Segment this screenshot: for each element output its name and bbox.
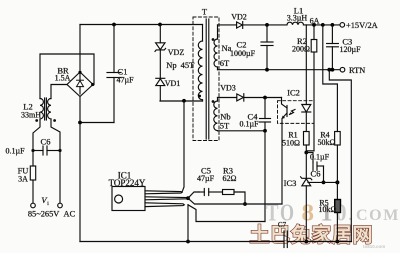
- winding Np primary: [198, 25, 202, 102]
- wire bridge bottom vertical to bottom rail: [79, 97, 81, 242]
- node drain junction: [182, 99, 186, 103]
- wire L2 left down jog to x33: [33, 119, 40, 151]
- svg-text:0.1µF: 0.1µF: [239, 120, 259, 129]
- node C6 ref: [322, 181, 326, 185]
- terminal +15V: [340, 23, 345, 28]
- svg-text:RTN: RTN: [349, 66, 365, 75]
- wire L2 left winding over bridge to right vertex: [40, 54, 94, 99]
- node R4 R5 junction: [335, 180, 339, 184]
- svg-text:8: 8: [302, 201, 315, 227]
- svg-text:1.5A: 1.5A: [55, 74, 71, 83]
- wire RTN rail: [218, 69, 341, 71]
- wire jog RTN to bottom net: [329, 70, 351, 242]
- svg-text:Np: Np: [166, 60, 176, 70]
- wire R4 feed from +15V: [323, 25, 338, 132]
- wire bridge left vertex to L2 right winding: [51, 85, 67, 99]
- capacitor C7 Y-cap: [284, 231, 287, 248]
- diode IC3 TL431: [301, 153, 312, 242]
- svg-text:IC3: IC3: [284, 178, 297, 188]
- wire R1 bottom to C6: [306, 153, 313, 163]
- wire bridge top to rail: [79, 25, 81, 73]
- pin control: [145, 197, 188, 200]
- watermark TO810.COM: [266, 201, 400, 227]
- svg-text:C2: C2: [237, 40, 247, 50]
- inductor L1: [287, 22, 304, 25]
- svg-text:50kΩ: 50kΩ: [318, 138, 336, 147]
- node C3 bottom: [331, 68, 335, 72]
- node source rail: [186, 240, 190, 244]
- wire Nb bottom to C4 bottom: [218, 130, 266, 132]
- resistor R4: [335, 132, 341, 183]
- inductor L2 common-mode choke: [35, 98, 56, 122]
- pin source: [145, 203, 184, 207]
- optocoupler IC2 dashed box: [278, 101, 315, 124]
- node clamp junction: [158, 23, 162, 27]
- node R1 bottom: [304, 151, 308, 155]
- wire IC2 emitter down: [281, 123, 283, 204]
- svg-text:1000µF: 1000µF: [230, 49, 256, 58]
- node jog RTN-down: [327, 68, 331, 72]
- bridge rectifier BR diamond: [67, 71, 94, 97]
- wire C6 to ref node: [323, 166, 325, 182]
- transformer T dashed box: [193, 17, 219, 141]
- wire control to C5 level: [188, 192, 199, 198]
- capacitor C5: [199, 189, 223, 196]
- node R3 to control wire: [243, 202, 247, 206]
- transformer core: [205, 19, 207, 139]
- node C4 top: [263, 96, 267, 100]
- diode VD1: [156, 78, 165, 101]
- node control pin: [186, 196, 190, 200]
- terminal AC right: [58, 203, 63, 208]
- node IC3 anode bottom: [304, 240, 308, 244]
- svg-text:IC2: IC2: [287, 88, 300, 98]
- node R2 top: [312, 23, 316, 27]
- capacitor C6: [313, 162, 324, 170]
- transistor IC2 phototransistor: [282, 98, 296, 124]
- wire control emitter line: [188, 198, 282, 204]
- resistor R5: [335, 182, 341, 241]
- capacitor C3: [327, 25, 339, 70]
- node C2 top: [265, 23, 269, 27]
- capacitor C6 X-cap: [31, 146, 61, 155]
- svg-text:33mH: 33mH: [21, 111, 41, 120]
- diode VDZ zener: [155, 25, 166, 79]
- svg-text:47µF: 47µF: [197, 174, 215, 183]
- svg-text:C6: C6: [41, 137, 51, 147]
- svg-text:C7: C7: [278, 221, 287, 229]
- wire source down to rail: [187, 205, 189, 242]
- svg-text:土巴兔家居网: 土巴兔家居网: [250, 223, 374, 247]
- node C3 top: [321, 23, 325, 27]
- diode VD3: [218, 94, 282, 101]
- wire ref horizontal: [308, 181, 337, 183]
- node C1 top junction: [112, 23, 116, 27]
- resistor R2: [306, 25, 317, 151]
- node C2 bottom: [265, 68, 269, 72]
- capacitor C4: [260, 98, 271, 131]
- svg-text:VD2: VD2: [231, 13, 247, 22]
- svg-text:TOP224Y: TOP224Y: [109, 178, 146, 188]
- diode IC2 LED: [302, 25, 311, 132]
- wire AC right: [59, 151, 61, 204]
- winding Nb bias: [212, 98, 218, 131]
- svg-text:VD3: VD3: [220, 84, 236, 93]
- svg-text:85~265V AC: 85~265V AC: [28, 210, 76, 219]
- pin drain: [145, 191, 182, 194]
- svg-text:3A: 3A: [18, 175, 28, 184]
- svg-text:10kΩ: 10kΩ: [319, 205, 337, 214]
- node control loop top: [263, 129, 267, 133]
- capacitor C1: [107, 25, 121, 123]
- wire L2 right down jog to x60: [51, 119, 60, 151]
- svg-text:VDZ: VDZ: [168, 48, 185, 57]
- terminal AC left: [31, 203, 36, 208]
- node bridge bottom junction: [78, 121, 82, 125]
- svg-text:47µF: 47µF: [116, 76, 134, 85]
- svg-text:VD1: VD1: [165, 79, 181, 88]
- fuse FU: [30, 151, 35, 204]
- svg-text:to810.com: to810.com: [363, 244, 385, 249]
- wire L1 to +15V terminal: [304, 24, 341, 26]
- svg-text:120µF: 120µF: [339, 45, 361, 54]
- svg-text:+15V/2A: +15V/2A: [346, 21, 378, 30]
- svg-text:45T: 45T: [181, 60, 196, 70]
- svg-text:200Ω: 200Ω: [292, 45, 310, 54]
- svg-text:6A: 6A: [310, 16, 320, 25]
- svg-text:62Ω: 62Ω: [223, 174, 237, 183]
- wire bottom rail right: [287, 241, 351, 243]
- svg-text:510Ω: 510Ω: [282, 139, 300, 148]
- terminal RTN: [340, 67, 345, 72]
- capacitor C2: [261, 25, 273, 70]
- svg-text:3.3µH: 3.3µH: [287, 14, 308, 23]
- IC1 TOP224Y package: [112, 187, 145, 211]
- svg-text:5T: 5T: [220, 121, 230, 131]
- svg-text:COM: COM: [356, 207, 400, 224]
- diode VD2: [218, 22, 288, 29]
- wire source to bias return loop: [188, 205, 265, 222]
- wire top DC+ rail: [80, 24, 203, 26]
- wire drain vertical: [182, 101, 184, 193]
- wire bottom rail left: [80, 241, 284, 243]
- svg-text:0.1µF: 0.1µF: [5, 147, 25, 156]
- svg-text:T: T: [202, 7, 208, 17]
- node R5 bottom: [336, 240, 340, 244]
- resistor R1: [304, 132, 310, 153]
- winding Na secondary: [212, 25, 218, 70]
- wire control loop vertical: [264, 131, 266, 222]
- resistor R3: [223, 190, 246, 205]
- svg-text:6T: 6T: [220, 58, 230, 68]
- wire C1 bottom to bridge bottom: [80, 122, 114, 124]
- wire VD1 to Np bottom: [160, 100, 203, 102]
- svg-text:C6: C6: [311, 169, 321, 179]
- svg-text:0.1µF: 0.1µF: [310, 153, 330, 162]
